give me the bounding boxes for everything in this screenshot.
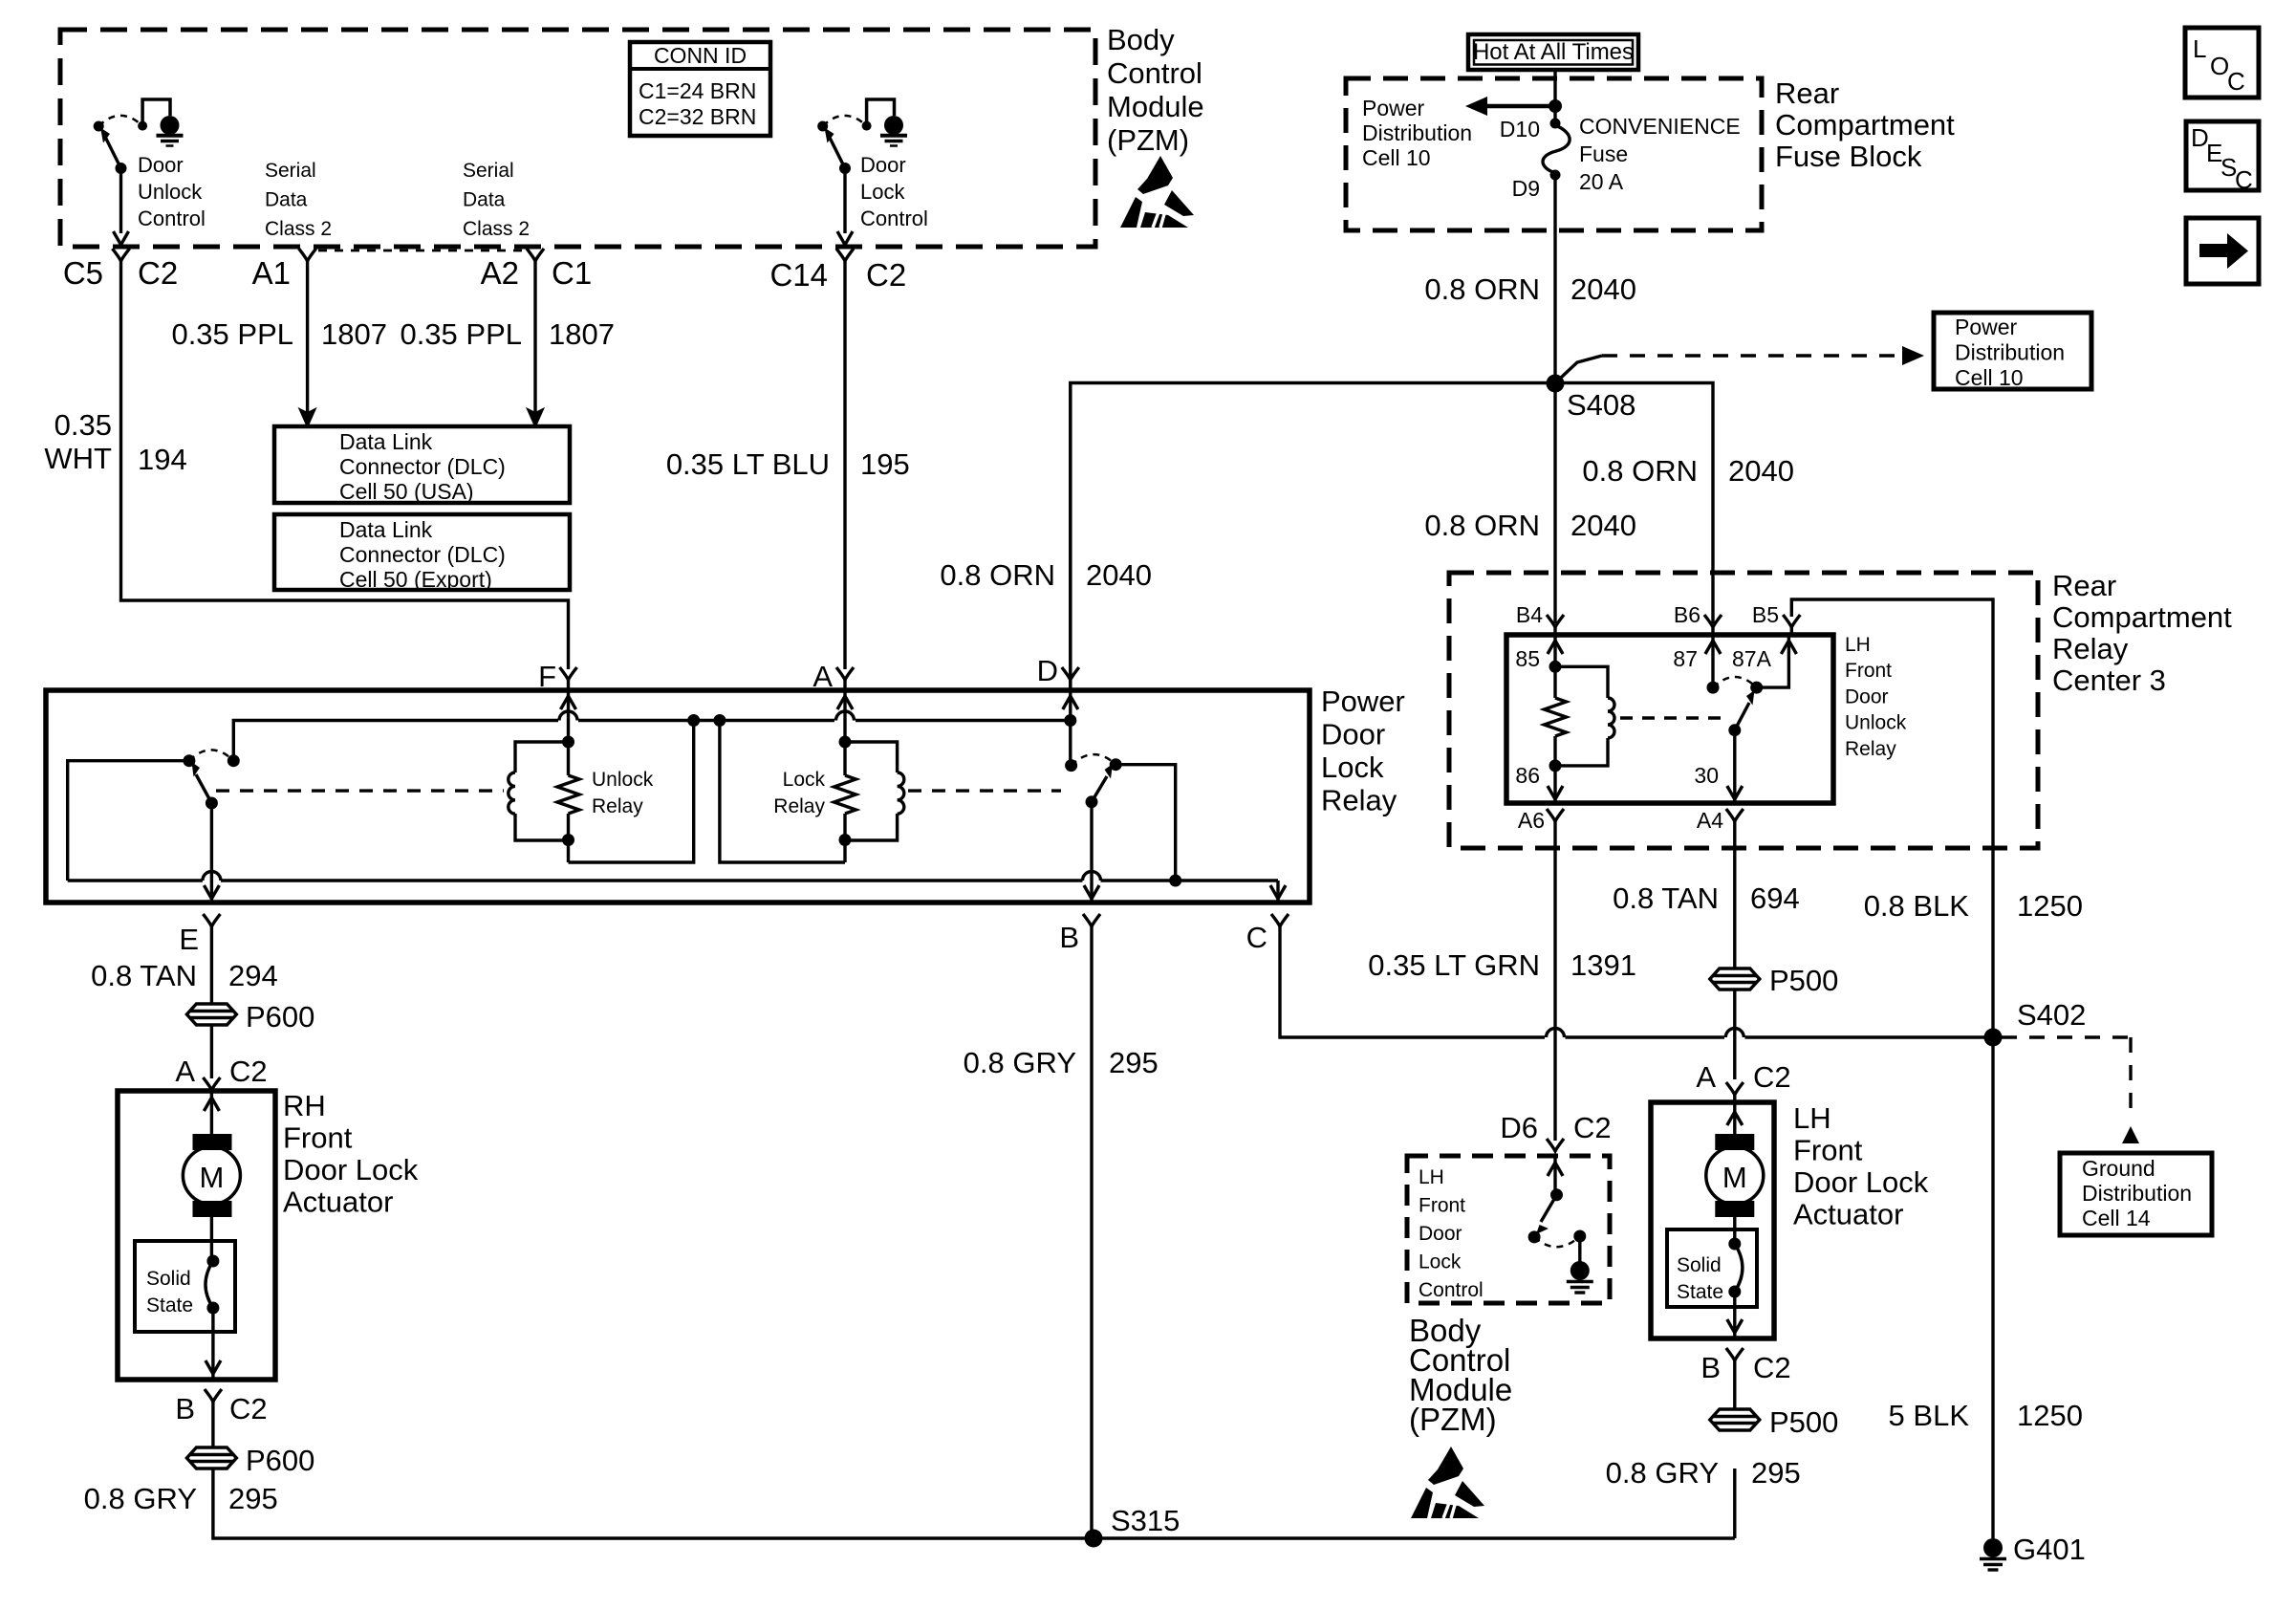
label 0.35 LT GRN bbox=[1368, 948, 1540, 982]
svg-text:B4: B4 bbox=[1516, 602, 1543, 627]
svg-text:G401: G401 bbox=[2013, 1533, 2086, 1566]
Door Unlock Control label bbox=[138, 153, 206, 230]
pin label C14 bbox=[769, 257, 828, 293]
wire 0.35 WHT 194 from C2 down and right to F bbox=[121, 261, 569, 669]
svg-text:85: 85 bbox=[1515, 646, 1540, 671]
wire 85 inside relay bbox=[1553, 635, 1556, 698]
svg-text:0.35 PPL: 0.35 PPL bbox=[400, 317, 522, 351]
svg-text:0.8 TAN: 0.8 TAN bbox=[1613, 881, 1719, 915]
arrow into DLC (A1) bbox=[300, 409, 315, 426]
wire 0.8 TAN 694 from A4 down bbox=[1733, 821, 1736, 968]
wire D inside relay box bbox=[1069, 690, 1072, 766]
LH Front Door Unlock Relay box bbox=[1506, 635, 1833, 803]
svg-text:P600: P600 bbox=[246, 1000, 314, 1033]
junction dot (lock branch on top bus) bbox=[713, 714, 726, 727]
svg-text:A6: A6 bbox=[1518, 808, 1545, 833]
arrow down inside LH box bbox=[1727, 1319, 1743, 1333]
label 0.8 BLK bbox=[1864, 889, 1970, 923]
svg-text:1807: 1807 bbox=[321, 317, 387, 351]
dashed actuation link in LH relay bbox=[1620, 716, 1726, 719]
dashed link between A1 and A2 connectors bbox=[318, 250, 524, 252]
pin label E bbox=[179, 923, 199, 956]
svg-text:Lock: Lock bbox=[783, 769, 826, 791]
svg-text:RearCompartmentFuse Block: RearCompartmentFuse Block bbox=[1775, 76, 1955, 173]
svg-text:0.35 PPL: 0.35 PPL bbox=[171, 317, 293, 351]
pin D6|C2 connector Y bbox=[1547, 1139, 1564, 1151]
wire 0.35 LT BLU 195 from C14/C2 to A bbox=[843, 261, 846, 669]
wire motor to solid state (RH) bbox=[210, 1217, 213, 1261]
pin label B bbox=[1059, 921, 1079, 954]
Hot At All Times box bbox=[1468, 34, 1638, 70]
pin F connector Y bbox=[560, 667, 577, 690]
svg-text:M: M bbox=[199, 1161, 224, 1194]
splice S402 dot bbox=[1984, 1029, 2003, 1047]
87 contact dot bbox=[1707, 682, 1720, 694]
svg-text:B: B bbox=[1059, 921, 1079, 954]
ground inside lock control box bbox=[1567, 1261, 1593, 1293]
LH Solid State box bbox=[1667, 1229, 1757, 1307]
svg-text:P500: P500 bbox=[1769, 964, 1838, 997]
label 295 (LH) bbox=[1751, 1456, 1801, 1490]
fuse top terminal dot bbox=[1550, 119, 1561, 129]
svg-text:1250: 1250 bbox=[2017, 1399, 2083, 1432]
pin label B (LH) bbox=[1700, 1351, 1721, 1384]
ESD sensitivity symbol (top) bbox=[1120, 156, 1194, 228]
Serial Data Class 2 label (A1) bbox=[265, 160, 332, 240]
wire solid state to LH pin B bbox=[1733, 1292, 1736, 1338]
fuse bottom terminal dot bbox=[1550, 170, 1561, 181]
wire 0.35 PPL 1807 from A1 to DLC bbox=[306, 261, 309, 413]
arrow up at 85 bbox=[1548, 641, 1563, 654]
pin B5 connector Y bbox=[1783, 615, 1800, 635]
wire E from left switch pivot to box exit bbox=[210, 803, 213, 903]
wire solid state to RH pin B bbox=[211, 1308, 214, 1380]
label D9 bbox=[1512, 176, 1540, 201]
Body Control Module (PZM) bottom label bbox=[1409, 1313, 1512, 1437]
label P600 (top) bbox=[246, 1000, 314, 1033]
pin A4 connector Y bbox=[1726, 809, 1744, 821]
svg-text:86: 86 bbox=[1515, 763, 1540, 788]
Lock Relay coil+resistor ladder bbox=[720, 721, 904, 863]
arrow down inside RH box bbox=[206, 1360, 221, 1374]
DESC reference box bbox=[2186, 121, 2259, 190]
dashed actuation link to Unlock Relay coil bbox=[216, 789, 504, 792]
wire B from right switch pivot to box exit bbox=[1090, 802, 1093, 903]
pin label F bbox=[538, 660, 556, 693]
wire 0.8 GRY 295 from B to S315 bbox=[1090, 926, 1093, 1538]
wire 0.35 LT GRN 1391 from A6 to D6 bbox=[1553, 821, 1556, 1141]
Data Link Connector (Export) box bbox=[274, 514, 570, 590]
svg-text:RearCompartmentRelayCenter 3: RearCompartmentRelayCenter 3 bbox=[2052, 569, 2232, 697]
label 0.35 WHT bbox=[44, 408, 112, 475]
label 0.8 ORN (B4 branch) bbox=[1424, 509, 1540, 542]
svg-text:DoorLockControl: DoorLockControl bbox=[860, 153, 928, 230]
LH motor M bbox=[1706, 1134, 1764, 1217]
wire 0.8 BLK 1250 / 5 BLK 1250 vertical bbox=[1991, 848, 1994, 1538]
Rear Compartment Fuse Block dashed box bbox=[1346, 78, 1762, 230]
pin B4 connector Y bbox=[1547, 615, 1564, 635]
pin label B6 bbox=[1674, 602, 1700, 627]
svg-text:P500: P500 bbox=[1769, 1405, 1838, 1439]
label 295 (RH) bbox=[228, 1482, 278, 1515]
Power Distribution Cell 10 reference box bbox=[1934, 313, 2091, 389]
wire from SW1 pivot to pin C5/C2 bbox=[119, 168, 122, 233]
svg-text:194: 194 bbox=[138, 443, 187, 476]
wire B to P600 bbox=[211, 1402, 214, 1447]
svg-text:A: A bbox=[812, 660, 833, 693]
pin label A2 bbox=[481, 255, 519, 291]
wire into LH motor bbox=[1733, 1102, 1736, 1134]
pin label A bbox=[812, 660, 833, 693]
DESC letters bbox=[2191, 123, 2253, 194]
relay left switch contacts bbox=[183, 750, 239, 767]
pin label C2 (RH A) bbox=[229, 1055, 268, 1088]
CONN ID title bbox=[654, 43, 747, 68]
wire 87 inside relay bbox=[1711, 635, 1714, 687]
label 87 bbox=[1673, 646, 1698, 671]
svg-text:CONVENIENCEFuse20 A: CONVENIENCEFuse20 A bbox=[1579, 114, 1741, 194]
svg-text:C2: C2 bbox=[1753, 1351, 1791, 1384]
pin label C bbox=[1246, 921, 1267, 954]
wire into LH lock control switch bbox=[1553, 1156, 1556, 1195]
label 87A bbox=[1732, 646, 1772, 671]
svg-text:DoorUnlockControl: DoorUnlockControl bbox=[138, 153, 206, 230]
svg-text:Relay: Relay bbox=[773, 795, 825, 817]
svg-text:P600: P600 bbox=[246, 1444, 314, 1477]
arrow up at D bbox=[1063, 696, 1078, 709]
pin A|C2 connector Y (LH) bbox=[1726, 1082, 1744, 1102]
wire C to S402 horizontal bbox=[1280, 926, 1993, 1037]
svg-text:LHFrontDoorUnlockRelay: LHFrontDoorUnlockRelay bbox=[1845, 634, 1907, 760]
LH Front Door Unlock Relay label bbox=[1845, 634, 1907, 760]
svg-text:A: A bbox=[175, 1055, 195, 1088]
junction dot above fuse bbox=[1549, 99, 1562, 113]
svg-text:UnlockRelay: UnlockRelay bbox=[592, 769, 654, 817]
label 195 bbox=[860, 447, 910, 481]
pin label C2 (LH A) bbox=[1753, 1060, 1791, 1094]
pin label B4 bbox=[1516, 602, 1543, 627]
86 coil dot bbox=[1549, 759, 1562, 772]
label 194 bbox=[138, 443, 187, 476]
svg-text:1807: 1807 bbox=[549, 317, 615, 351]
Power Door Lock Relay label bbox=[1321, 685, 1405, 817]
svg-text:30: 30 bbox=[1694, 763, 1719, 788]
svg-text:294: 294 bbox=[228, 959, 278, 992]
pin B connector Y bbox=[1083, 914, 1100, 926]
arrow up at 87 bbox=[1705, 641, 1721, 654]
right switch NO contact wire to bottom bus bbox=[1116, 765, 1176, 881]
pin C14|C2 connector Y bbox=[836, 249, 854, 261]
svg-text:0.8 BLK: 0.8 BLK bbox=[1864, 889, 1970, 923]
svg-text:0.8 ORN: 0.8 ORN bbox=[1424, 272, 1540, 306]
svg-text:LHFrontDoorLockControl: LHFrontDoorLockControl bbox=[1419, 1166, 1484, 1301]
svg-text:0.8 GRY: 0.8 GRY bbox=[964, 1046, 1076, 1079]
svg-text:CONN ID: CONN ID bbox=[654, 43, 747, 68]
label 30 bbox=[1694, 763, 1719, 788]
svg-text:C5: C5 bbox=[63, 255, 103, 291]
wire 0.8 TAN 294 from E down bbox=[210, 926, 213, 1003]
arrow down at 86 bbox=[1548, 786, 1563, 799]
svg-text:0.35 LT GRN: 0.35 LT GRN bbox=[1368, 948, 1540, 982]
Power Distribution Cell 10 text (fuse block) bbox=[1362, 96, 1472, 170]
fuse F1 CONVENIENCE 20A element bbox=[1543, 125, 1570, 173]
wire S408 down to B4 bbox=[1553, 383, 1556, 623]
pin label A4 bbox=[1697, 808, 1723, 833]
RH Front Door Lock Actuator label bbox=[283, 1089, 419, 1219]
RH solid state contact bbox=[206, 1255, 219, 1315]
dashed actuation link to Lock Relay coil bbox=[908, 789, 1061, 792]
svg-text:2040: 2040 bbox=[1570, 272, 1636, 306]
pin label C2 (of C5 wire) bbox=[138, 255, 178, 291]
svg-text:1250: 1250 bbox=[2017, 889, 2083, 923]
svg-text:GroundDistributionCell 14: GroundDistributionCell 14 bbox=[2082, 1156, 2192, 1230]
label S315 bbox=[1111, 1504, 1180, 1537]
Power Door Lock Relay box bbox=[46, 690, 1310, 903]
pin label C2 (D6) bbox=[1573, 1111, 1612, 1144]
wire F inside relay box bbox=[567, 690, 570, 742]
wire A inside relay box bbox=[843, 690, 846, 742]
LH lock control switch bbox=[1528, 1188, 1587, 1262]
CONN ID table box bbox=[630, 42, 770, 136]
svg-text:BodyControlModule(PZM): BodyControlModule(PZM) bbox=[1409, 1313, 1512, 1437]
Data Link Connector (USA) text bbox=[339, 429, 506, 504]
label 86 bbox=[1515, 763, 1540, 788]
wire 30 from pivot to exit bbox=[1733, 730, 1736, 803]
svg-text:0.8 TAN: 0.8 TAN bbox=[91, 959, 197, 992]
pin label A1 bbox=[252, 255, 291, 291]
svg-text:SerialDataClass 2: SerialDataClass 2 bbox=[265, 160, 332, 240]
label 2040 (B6 branch) bbox=[1728, 454, 1794, 488]
wire 86 exit bbox=[1553, 736, 1556, 803]
wire B5 elbow to BLK wire bbox=[1791, 599, 1993, 848]
Ground Distribution Cell 14 text bbox=[2082, 1156, 2192, 1230]
svg-text:C2: C2 bbox=[229, 1392, 268, 1425]
wire B to P500 (LH) bbox=[1733, 1360, 1736, 1409]
relay inner bottom bus bbox=[68, 872, 1278, 889]
wire 0.8 GRY 295 to S315 bbox=[213, 1469, 1094, 1538]
label 2040 (D branch) bbox=[1086, 558, 1152, 592]
svg-text:E: E bbox=[179, 923, 199, 956]
svg-text:SolidState: SolidState bbox=[146, 1268, 193, 1316]
relay right switch contacts bbox=[1065, 754, 1122, 772]
pin label C2 (RH B) bbox=[229, 1392, 268, 1425]
connector P500 (A4) bbox=[1710, 968, 1760, 990]
label 1807 (A1) bbox=[321, 317, 387, 351]
Rear Compartment Relay Center 3 dashed box bbox=[1449, 573, 2038, 848]
label 1250 (BLK) bbox=[2017, 889, 2083, 923]
svg-text:PowerDistributionCell 10: PowerDistributionCell 10 bbox=[1362, 96, 1472, 170]
svg-text:PowerDoorLockRelay: PowerDoorLockRelay bbox=[1321, 685, 1405, 817]
svg-text:0.8 ORN: 0.8 ORN bbox=[1582, 454, 1698, 488]
svg-text:87: 87 bbox=[1673, 646, 1698, 671]
label 1250 (5 BLK) bbox=[2017, 1399, 2083, 1432]
pin D connector Y bbox=[1062, 667, 1079, 690]
label 0.8 GRY (RH) bbox=[84, 1482, 197, 1515]
svg-text:A4: A4 bbox=[1697, 808, 1723, 833]
dashed reference arrow to Power Distribution Cell 10 bbox=[1561, 346, 1924, 378]
svg-text:C2: C2 bbox=[866, 257, 906, 293]
pin C5|C2 connector Y bbox=[113, 249, 130, 261]
svg-text:B6: B6 bbox=[1674, 602, 1700, 627]
svg-text:A: A bbox=[1696, 1060, 1716, 1094]
svg-text:295: 295 bbox=[1751, 1456, 1801, 1490]
label 0.8 TAN bbox=[1613, 881, 1719, 915]
pin label B5 bbox=[1752, 602, 1779, 627]
arrow down at C5/C2 wire exit bbox=[114, 231, 129, 245]
Door Lock Control label bbox=[860, 153, 928, 230]
85 coil dot bbox=[1549, 661, 1562, 673]
pin label B (RH) bbox=[175, 1392, 195, 1425]
label 1391 bbox=[1570, 948, 1636, 982]
wire S315 to LH actuator bbox=[1094, 1469, 1735, 1538]
label S402 bbox=[2017, 998, 2086, 1032]
pin label C5 bbox=[63, 255, 103, 291]
Body Control Module (PZM) label bbox=[1107, 23, 1204, 157]
label 5 BLK bbox=[1889, 1399, 1970, 1432]
junction dot (D wire joins top bus) bbox=[1064, 714, 1076, 727]
svg-text:295: 295 bbox=[228, 1482, 278, 1515]
label G401 bbox=[2013, 1533, 2086, 1566]
switch SW2 Door Lock Control bbox=[817, 99, 907, 174]
label P500 (A4) bbox=[1769, 964, 1838, 997]
svg-text:S408: S408 bbox=[1567, 388, 1635, 422]
pin label C2 (LH B) bbox=[1753, 1351, 1791, 1384]
label 0.8 GRY (B) bbox=[964, 1046, 1076, 1079]
svg-text:2040: 2040 bbox=[1570, 509, 1636, 542]
Ground Distribution Cell 14 box bbox=[2060, 1153, 2212, 1235]
Power Distribution Cell 10 reference text bbox=[1955, 315, 2065, 390]
pin C connector Y bbox=[1271, 914, 1289, 926]
Rear Compartment Fuse Block label bbox=[1775, 76, 1955, 173]
Data Link Connector (USA) box bbox=[274, 426, 570, 503]
label 2040 (B4 branch) bbox=[1570, 509, 1636, 542]
arrow up inside lock control box bbox=[1548, 1163, 1563, 1176]
svg-text:C2: C2 bbox=[229, 1055, 268, 1088]
arrow down at C bbox=[1270, 885, 1286, 903]
svg-text:694: 694 bbox=[1750, 881, 1800, 915]
arrow up inside LH box bbox=[1727, 1112, 1743, 1125]
relay inner top bus from left switch NO contact to D bbox=[233, 711, 1071, 761]
pin A1 connector Y bbox=[299, 249, 316, 261]
arrow down at C14/C2 wire exit bbox=[837, 231, 853, 245]
arrow into DLC (A2) bbox=[528, 409, 543, 426]
connector P600 (top) bbox=[186, 1004, 236, 1025]
arrow reference box bbox=[2186, 218, 2259, 284]
svg-text:BodyControlModule(PZM): BodyControlModule(PZM) bbox=[1107, 23, 1204, 157]
LH Front Door Lock Actuator label bbox=[1793, 1101, 1929, 1231]
pin label C2 (of C14 wire) bbox=[866, 257, 906, 293]
svg-text:D9: D9 bbox=[1512, 176, 1540, 201]
LH relay coil branch bbox=[1555, 666, 1614, 766]
svg-text:C1=24 BRN: C1=24 BRN bbox=[639, 78, 756, 103]
junction dot (right NO branch on bottom bus) bbox=[1169, 875, 1181, 887]
svg-text:C14: C14 bbox=[769, 257, 828, 293]
svg-text:D10: D10 bbox=[1500, 117, 1540, 141]
svg-text:295: 295 bbox=[1109, 1046, 1159, 1079]
svg-text:PowerDistributionCell 10: PowerDistributionCell 10 bbox=[1955, 315, 2065, 390]
svg-text:M: M bbox=[1722, 1161, 1747, 1194]
pin A connector Y bbox=[836, 667, 854, 690]
svg-text:87A: 87A bbox=[1732, 646, 1772, 671]
pin label A (LH) bbox=[1696, 1060, 1716, 1094]
label 0.8 ORN (above S408) bbox=[1424, 272, 1540, 306]
svg-text:Data LinkConnector (DLC)Cell 5: Data LinkConnector (DLC)Cell 50 (Export) bbox=[339, 517, 506, 592]
Hot At All Times text bbox=[1473, 39, 1634, 65]
LH Solid State text bbox=[1677, 1254, 1723, 1303]
pin A2 connector Y bbox=[527, 249, 544, 261]
junction dot (unlock branch on top bus) bbox=[687, 714, 700, 727]
svg-text:0.35WHT: 0.35WHT bbox=[44, 408, 112, 475]
label P600 (bottom) bbox=[246, 1444, 314, 1477]
label 0.35 LT BLU bbox=[666, 447, 830, 481]
svg-text:SolidState: SolidState bbox=[1677, 1254, 1723, 1303]
label 0.8 ORN (D branch) bbox=[940, 558, 1055, 592]
wire P600 to RH pin A bbox=[210, 1025, 213, 1078]
dashed reference to Ground Distribution bbox=[2002, 1037, 2139, 1143]
wire 0.35 PPL 1807 from C1/A2 to DLC bbox=[533, 261, 536, 413]
arrow icon bbox=[2199, 233, 2248, 269]
arrow up at B5 inside bbox=[1781, 641, 1796, 654]
label 1807 (A2) bbox=[549, 317, 615, 351]
arrow up at A bbox=[837, 696, 853, 709]
svg-text:F: F bbox=[538, 660, 556, 693]
svg-text:S315: S315 bbox=[1111, 1504, 1180, 1537]
Lock Relay label bbox=[773, 769, 825, 817]
svg-text:0.8 ORN: 0.8 ORN bbox=[1424, 509, 1540, 542]
label 694 bbox=[1750, 881, 1800, 915]
svg-text:C: C bbox=[2235, 165, 2253, 194]
label 294 bbox=[228, 959, 278, 992]
connector P500 (bottom) bbox=[1710, 1409, 1760, 1430]
label 0.8 TAN (E) bbox=[91, 959, 197, 992]
svg-text:C2: C2 bbox=[1753, 1060, 1791, 1094]
arrow up inside RH box bbox=[204, 1098, 219, 1111]
svg-text:A2: A2 bbox=[481, 255, 519, 291]
wire S408 right to B6 bbox=[1555, 383, 1713, 624]
svg-text:C2=32 BRN: C2=32 BRN bbox=[639, 104, 756, 129]
pin B|C2 connector Y (LH) bbox=[1726, 1348, 1744, 1360]
Unlock Relay coil+resistor ladder bbox=[509, 721, 694, 863]
svg-text:1391: 1391 bbox=[1570, 948, 1636, 982]
dashed arc 87-87A bbox=[1713, 677, 1757, 687]
LH relay resistor zigzag bbox=[1545, 698, 1567, 736]
wire 87A to B5 bbox=[1757, 635, 1789, 687]
label 0.35 PPL (A1) bbox=[171, 317, 293, 351]
svg-text:C2: C2 bbox=[1573, 1111, 1612, 1144]
Unlock Relay label bbox=[592, 769, 654, 817]
svg-text:C: C bbox=[2227, 67, 2245, 96]
label 2040 (above S408) bbox=[1570, 272, 1636, 306]
svg-text:C1: C1 bbox=[552, 255, 592, 291]
arrow down at B bbox=[1084, 885, 1099, 899]
87A contact dot bbox=[1750, 682, 1763, 694]
label 85 bbox=[1515, 646, 1540, 671]
label 0.8 ORN (B6 branch) bbox=[1582, 454, 1698, 488]
svg-text:Data LinkConnector (DLC)Cell 5: Data LinkConnector (DLC)Cell 50 (USA) bbox=[339, 429, 506, 504]
Rear Compartment Relay Center 3 label bbox=[2052, 569, 2232, 697]
svg-text:0.8 GRY: 0.8 GRY bbox=[1606, 1456, 1719, 1490]
RH Solid State box bbox=[135, 1241, 235, 1332]
CONN ID row C1 bbox=[639, 78, 756, 103]
label 0.35 PPL (A2) bbox=[400, 317, 522, 351]
Data Link Connector (Export) text bbox=[339, 517, 506, 592]
pin A|C2 connector Y (RH) bbox=[203, 1077, 220, 1091]
svg-text:C: C bbox=[1246, 921, 1267, 954]
CONVENIENCE Fuse 20 A text bbox=[1579, 114, 1741, 194]
LOC reference box bbox=[2185, 28, 2259, 98]
wire into RH motor bbox=[210, 1091, 213, 1134]
LH relay switch lever bbox=[1728, 690, 1754, 736]
